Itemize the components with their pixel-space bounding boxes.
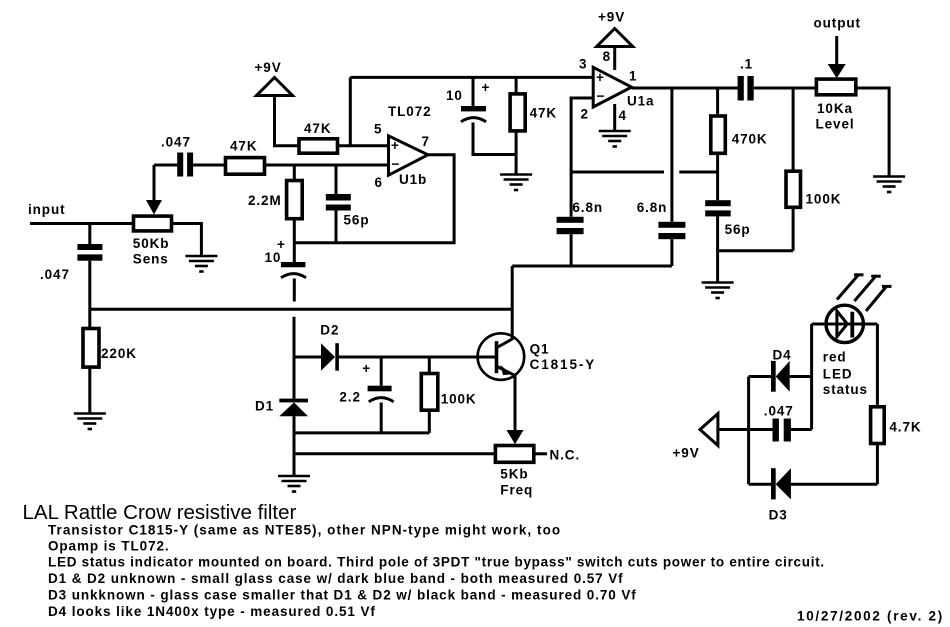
- svg-text:LAL Rattle Crow resistive filt: LAL Rattle Crow resistive filter: [23, 501, 297, 524]
- wire N.C. stub: [534, 452, 547, 455]
- capacitor .047 (series): [177, 153, 183, 177]
- svg-text:100K: 100K: [441, 392, 477, 407]
- resistor 47K (bias to pin 5): [299, 139, 338, 153]
- svg-text:10Ka: 10Ka: [817, 101, 853, 116]
- capacitor 56p (feedback): [335, 165, 338, 194]
- ground (U1a pin 4): [599, 131, 631, 147]
- potentiometer 5Kb Freq: [495, 446, 533, 463]
- svg-text:7: 7: [422, 134, 430, 149]
- svg-text:3: 3: [579, 57, 587, 72]
- capacitor .047 (LED): [773, 419, 779, 442]
- diode D4: [749, 375, 771, 378]
- svg-text:D1: D1: [255, 399, 274, 414]
- svg-text:+: +: [482, 80, 491, 95]
- wire LED right leg to 4.7K: [876, 324, 879, 407]
- svg-text:C1815-Y: C1815-Y: [530, 357, 597, 372]
- wire cap to pot: [754, 87, 817, 90]
- svg-text:Level: Level: [816, 117, 855, 132]
- svg-text:6.8n: 6.8n: [572, 200, 603, 215]
- capacitor 10uF (top, on pin3 rail): [472, 77, 475, 106]
- svg-text:+: +: [596, 70, 605, 85]
- wire pot right to ground: [856, 88, 889, 176]
- svg-text:output: output: [814, 16, 861, 31]
- svg-text:D1 & D2 unknown - small glass: D1 & D2 unknown - small glass case w/ da…: [48, 571, 624, 586]
- ground (D1 chain): [278, 476, 310, 492]
- wire 47K to U1b inverting input: [265, 164, 389, 167]
- wire D2 rail to Q1 base: [294, 356, 321, 359]
- svg-text:status: status: [823, 382, 868, 397]
- potentiometer 50Kb Sens: [134, 216, 172, 231]
- wire bottom rail (2.2/100K return): [294, 431, 429, 434]
- wire bus 6.8n bottoms to Q1 collector: [512, 265, 672, 268]
- capacitor .1 (output coupling): [738, 76, 744, 101]
- capacitor 2.2 (polarized): [380, 357, 383, 386]
- wire mid link (pin2 node to 470K/56p node, crossover gap at x=672): [571, 171, 664, 174]
- LED rays: [837, 274, 859, 299]
- svg-text:Sens: Sens: [133, 252, 169, 267]
- wire +9V to .047: [718, 428, 773, 431]
- svg-text:D2: D2: [320, 323, 339, 338]
- LED red status: [812, 323, 878, 326]
- svg-text:1: 1: [629, 69, 637, 84]
- resistor 100K (base): [428, 357, 431, 374]
- wire Freq rail: [294, 452, 495, 455]
- svg-text:.047: .047: [40, 267, 70, 282]
- svg-text:U1a: U1a: [627, 94, 654, 109]
- wire input line: [30, 222, 134, 225]
- svg-text:+9V: +9V: [255, 60, 282, 75]
- resistor 100K (output shunt): [792, 88, 795, 171]
- wire D1/D2 vertical (below bus crossover gap): [293, 317, 296, 399]
- diode D1: [279, 399, 308, 403]
- svg-text:Q1: Q1: [530, 342, 550, 357]
- diode D2: [321, 343, 335, 371]
- wire +9V down to 47K bias: [275, 96, 300, 146]
- svg-text:6.8n: 6.8n: [637, 200, 668, 215]
- wire LED left rail: [747, 377, 750, 485]
- wire cap to 47K: [193, 164, 225, 167]
- svg-text:+: +: [391, 138, 400, 153]
- resistor 470K (to 56p): [716, 88, 719, 116]
- svg-text:N.C.: N.C.: [550, 448, 581, 463]
- wire 100K bottom to 56p node: [718, 249, 794, 252]
- wire main bus (input to Q1 collector): [90, 308, 512, 311]
- wire pin 2 left and down: [571, 98, 593, 217]
- svg-text:.1: .1: [740, 57, 753, 72]
- svg-text:100K: 100K: [806, 192, 842, 207]
- power +9V (U1a supply pin 8): [597, 29, 633, 47]
- svg-text:+: +: [362, 361, 371, 376]
- svg-text:−: −: [392, 157, 401, 172]
- ground (220K): [74, 414, 106, 430]
- wire D1 down through rails to ground: [293, 416, 296, 475]
- svg-text:56p: 56p: [344, 213, 370, 228]
- power +9V (U1b supply): [257, 78, 293, 96]
- svg-text:red: red: [823, 350, 847, 365]
- svg-text:LED: LED: [823, 367, 853, 382]
- svg-text:D3 unkknown - glass case small: D3 unkknown - glass case smaller that D1…: [48, 588, 637, 603]
- resistor 4.7K: [871, 407, 885, 444]
- potentiometer 10Ka Level: [816, 79, 855, 95]
- power +9V (LED section): [700, 414, 718, 446]
- svg-text:D4: D4: [773, 348, 792, 363]
- svg-text:5: 5: [374, 122, 382, 137]
- wire pin 4 to ground: [613, 104, 616, 130]
- diode D3: [749, 483, 771, 486]
- svg-text:TL072: TL072: [388, 104, 432, 119]
- svg-text:U1b: U1b: [399, 172, 427, 187]
- svg-text:47K: 47K: [304, 121, 331, 136]
- wire 47K to U1b non-inverting input: [338, 144, 389, 147]
- ground (Sens): [185, 256, 217, 272]
- svg-text:−: −: [597, 89, 606, 104]
- svg-text:LED status indicator mounted o: LED status indicator mounted on board. T…: [48, 555, 825, 570]
- capacitor .047 (input shunt): [77, 244, 102, 250]
- resistor 47K (series input): [226, 158, 265, 175]
- svg-text:+9V: +9V: [673, 446, 700, 461]
- capacitor 10uF (U1b feedback to bus): [293, 243, 296, 262]
- svg-text:input: input: [28, 202, 66, 217]
- wire wiper to series cap: [154, 164, 177, 167]
- svg-text:56p: 56p: [725, 222, 751, 237]
- wire input junction down: [88, 224, 91, 245]
- svg-text:10/27/2002 (rev. 2): 10/27/2002 (rev. 2): [797, 609, 944, 624]
- svg-text:50Kb: 50Kb: [133, 236, 170, 251]
- capacitor 6.8n (left): [557, 217, 584, 223]
- svg-text:10: 10: [446, 88, 463, 103]
- svg-text:2.2M: 2.2M: [248, 193, 282, 208]
- wire U1a output rail: [632, 87, 739, 90]
- svg-text:.047: .047: [764, 404, 794, 419]
- svg-text:+9V: +9V: [598, 10, 625, 25]
- svg-text:Freq: Freq: [500, 483, 533, 498]
- svg-text:.047: .047: [161, 135, 191, 150]
- svg-text:4.7K: 4.7K: [889, 420, 921, 435]
- svg-text:47K: 47K: [230, 139, 257, 154]
- wire Sens wiper arrow: [153, 165, 156, 202]
- wire top rail to U1a pin 3: [350, 76, 593, 79]
- wire U1b output feedback loop: [294, 155, 454, 243]
- resistor 220K: [83, 329, 99, 368]
- ground (47K): [500, 175, 532, 191]
- wire cap to bus: [88, 261, 91, 329]
- svg-text:D4 looks like 1N400x type - me: D4 looks like 1N400x type - measured 0.5…: [48, 604, 376, 619]
- svg-text:6: 6: [375, 175, 383, 190]
- svg-text:470K: 470K: [732, 132, 768, 147]
- wire 220K to ground: [88, 367, 91, 412]
- op-amp U1b: [389, 136, 428, 175]
- resistor 2.2M (feedback): [293, 165, 296, 181]
- ground (10Ka): [873, 177, 905, 193]
- svg-text:220K: 220K: [101, 346, 137, 361]
- ground (56p): [702, 283, 734, 299]
- resistor 47K (pin3 rail to ground): [515, 77, 518, 94]
- svg-text:4: 4: [619, 108, 627, 123]
- svg-text:10: 10: [265, 250, 282, 265]
- wire junction up to top rail: [349, 77, 352, 145]
- capacitor 6.8n (right): [670, 88, 673, 222]
- svg-text:Transistor C1815-Y (same as NT: Transistor C1815-Y (same as NTE85), othe…: [48, 523, 561, 538]
- svg-text:2: 2: [581, 107, 589, 122]
- wire emitter down with arrow to 5Kb: [514, 375, 517, 432]
- svg-text:Opamp is TL072.: Opamp is TL072.: [48, 539, 170, 554]
- svg-text:5Kb: 5Kb: [500, 467, 528, 482]
- capacitor 56p (right): [705, 200, 731, 206]
- svg-text:47K: 47K: [530, 106, 557, 121]
- transistor Q1 C1815-Y: [478, 333, 525, 380]
- svg-text:D3: D3: [769, 508, 788, 523]
- wire Sens right to ground: [172, 224, 202, 256]
- wire pin 8: [613, 47, 616, 71]
- op-amp U1a: [593, 67, 631, 107]
- wire LED left leg: [810, 324, 813, 430]
- svg-text:8: 8: [603, 49, 611, 64]
- svg-text:2.2: 2.2: [339, 390, 360, 405]
